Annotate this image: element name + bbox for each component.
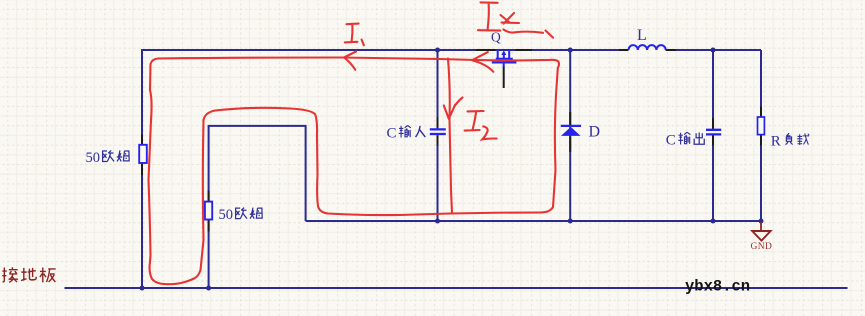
junction node top diode bbox=[568, 48, 573, 53]
svg-text:L: L bbox=[637, 27, 647, 44]
wire mid rail bbox=[306, 220, 761, 222]
resistor R-load body bbox=[758, 117, 765, 135]
svg-text:R: R bbox=[771, 133, 781, 149]
pin leads capacitor C-input (black) bbox=[437, 117, 439, 146]
red annotation: label I1 bbox=[345, 24, 364, 46]
junction node mid R-load / GND bbox=[759, 219, 764, 224]
resistor R1 body (50 ohm) bbox=[139, 145, 147, 163]
svg-text:GND: GND bbox=[751, 242, 773, 252]
red annotation: arrow head 2 near transistor (pointing left) bbox=[472, 52, 493, 72]
pin leads resistor R2 (black) bbox=[208, 191, 210, 232]
red annotation: small tick right of scribble bbox=[546, 31, 554, 38]
junction node mid C-output bbox=[711, 219, 716, 224]
svg-text:ybx8.cn: ybx8.cn bbox=[685, 278, 750, 296]
red annotation: label I2 bbox=[465, 111, 497, 139]
wire R-load branch bbox=[760, 50, 762, 221]
wire C-output branch bbox=[712, 50, 714, 221]
label "接地板" (ground plane) bbox=[2, 267, 55, 282]
junction node bottom left rail bbox=[140, 286, 145, 291]
capacitor C-input plates bbox=[430, 129, 446, 134]
transistor Q symbol (MOSFET) bbox=[492, 50, 517, 67]
wire left rail bbox=[141, 49, 143, 288]
wire diode branch bbox=[569, 50, 571, 221]
pin leads transistor Q (black) bbox=[476, 50, 532, 88]
pin leads resistor R1 (black) bbox=[141, 135, 143, 176]
red annotation: big current loop bbox=[149, 58, 560, 285]
svg-text:50: 50 bbox=[86, 150, 101, 166]
svg-text:C: C bbox=[387, 126, 397, 142]
svg-text:D: D bbox=[589, 123, 601, 140]
junction node bottom R2 bbox=[206, 286, 211, 291]
pin leads capacitor C-output (black) bbox=[712, 118, 714, 146]
diode D symbol bbox=[561, 126, 581, 136]
label "R负载" bbox=[771, 133, 809, 149]
label "50欧姆" for R2 bbox=[219, 207, 263, 223]
red annotation: arrow head 1 on top segment (pointing left) bbox=[344, 52, 356, 70]
wire inner rectangle (R2 branch) bbox=[209, 126, 306, 288]
junction node top C-output bbox=[711, 48, 716, 53]
wire top rail bbox=[142, 49, 761, 51]
junction node top C-input bbox=[435, 48, 440, 53]
svg-text:50: 50 bbox=[219, 207, 234, 223]
resistor R2 body (50 ohm) bbox=[205, 202, 212, 220]
wire C-input branch bbox=[437, 50, 439, 221]
red annotation: label I with scribble (top of Q) bbox=[478, 2, 500, 30]
pin leads inductor L (black) bbox=[619, 49, 676, 51]
red annotation: middle branch with down arrow bbox=[448, 59, 452, 213]
junction node mid C-input bbox=[435, 219, 440, 224]
inductor L coils bbox=[629, 45, 666, 50]
svg-text:C: C bbox=[666, 132, 676, 148]
pin leads diode D (black) bbox=[569, 112, 571, 152]
label "C输入" bbox=[387, 126, 426, 142]
wire bottom ground-plane rail bbox=[65, 287, 848, 289]
label "50欧姆" for R1 bbox=[86, 150, 130, 166]
ground GND symbol bbox=[751, 222, 773, 252]
pin leads resistor R-load (black) bbox=[760, 107, 762, 146]
capacitor C-output plates bbox=[706, 130, 721, 135]
junction node mid diode bbox=[568, 219, 573, 224]
label "C输出" bbox=[666, 132, 704, 148]
